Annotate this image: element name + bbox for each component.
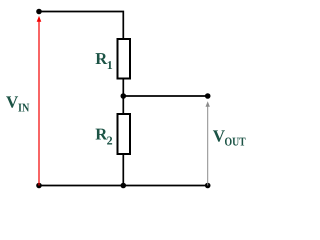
- svg-text:IN: IN: [18, 101, 30, 115]
- svg-text:OUT: OUT: [225, 134, 246, 148]
- svg-text:2: 2: [107, 134, 113, 148]
- svg-text:1: 1: [107, 58, 113, 72]
